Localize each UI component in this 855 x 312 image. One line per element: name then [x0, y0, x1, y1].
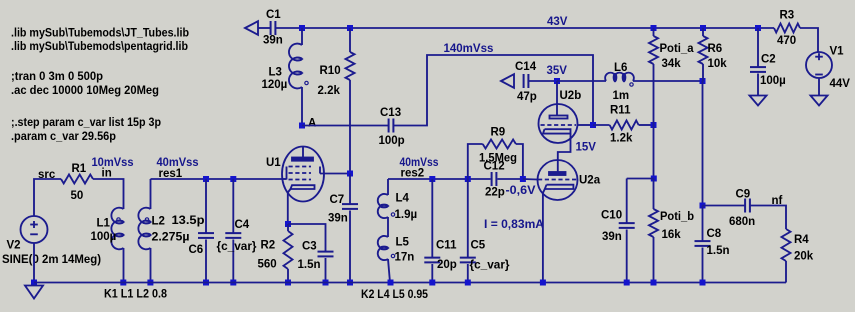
- svg-text:Poti_b: Poti_b: [660, 211, 694, 223]
- svg-text:L6: L6: [614, 62, 627, 74]
- junction R2 bottom rail: [285, 280, 291, 286]
- resistor R2: [284, 231, 293, 269]
- junction res1/C6: [203, 176, 209, 182]
- svg-text:R4: R4: [794, 234, 809, 246]
- svg-text:src: src: [38, 169, 56, 181]
- svg-text:R3: R3: [780, 10, 795, 22]
- resistor Poti_a: [649, 36, 658, 64]
- wire C11 bottom lead: [431, 264, 433, 283]
- junction 35V node: [554, 78, 560, 84]
- resistor R11: [610, 121, 639, 130]
- wire R9 left riser: [468, 144, 483, 179]
- svg-text:;.step param c_var list 15p 3p: ;.step param c_var list 15p 3p: [11, 117, 161, 129]
- svg-text:V1: V1: [830, 46, 845, 58]
- wire 43V rail: [258, 27, 270, 29]
- wire Poti_a top lead: [653, 28, 655, 36]
- svg-text:R10: R10: [320, 65, 341, 77]
- svg-text:C9: C9: [736, 189, 751, 201]
- junction C8 bottom rail: [700, 280, 706, 286]
- wire C4 top lead: [232, 179, 234, 233]
- ground at V2: [25, 286, 43, 299]
- wire R9 right riser: [516, 144, 523, 179]
- svg-text:43V: 43V: [547, 16, 568, 28]
- resistor R10: [346, 52, 355, 80]
- svg-text:47p: 47p: [517, 91, 537, 103]
- svg-text:470: 470: [777, 35, 796, 47]
- svg-text:C12: C12: [484, 161, 505, 173]
- wire C3 bottom lead: [325, 258, 327, 283]
- junction Poti_b bottom rail: [651, 280, 657, 286]
- svg-text:15V: 15V: [576, 142, 597, 154]
- wire C2 top lead: [757, 28, 759, 67]
- svg-text:560: 560: [258, 259, 277, 271]
- wire L3 top lead: [301, 28, 303, 45]
- svg-text:16k: 16k: [662, 229, 682, 241]
- wire node A to C13: [302, 125, 388, 127]
- wire L6 right lead: [633, 80, 703, 82]
- wire Poti_b top lead: [653, 179, 655, 210]
- wire R11 left lead: [593, 124, 610, 126]
- svg-text:Poti_a: Poti_a: [660, 43, 695, 55]
- resistor Poti_b: [649, 209, 658, 237]
- svg-text:L1: L1: [97, 218, 111, 230]
- svg-text:.param c_var 29.56p: .param c_var 29.56p: [11, 131, 116, 143]
- inductor L6: [605, 73, 634, 87]
- svg-text:res1: res1: [159, 168, 183, 180]
- svg-text:100µ: 100µ: [760, 75, 786, 87]
- wire R4 bottom lead: [785, 261, 787, 283]
- svg-text:L3: L3: [269, 67, 282, 79]
- capacitor C7: [342, 204, 358, 209]
- svg-text:I = 0,83mA: I = 0,83mA: [484, 219, 544, 231]
- svg-text:10k: 10k: [708, 58, 728, 70]
- wire C8 top lead: [702, 206, 704, 242]
- wire R2 top lead: [287, 224, 289, 231]
- junction L6 / R6 column: [700, 78, 706, 84]
- wire U2a cathode lead to rail: [542, 193, 544, 283]
- svg-text:-0,6V: -0,6V: [506, 185, 536, 197]
- wire 43V rail main run: [302, 27, 774, 29]
- svg-text:2.275µ: 2.275µ: [152, 232, 190, 244]
- junction C5 bottom rail: [465, 280, 471, 286]
- svg-text:C14: C14: [515, 61, 537, 73]
- svg-text:680n: 680n: [729, 216, 755, 228]
- junction C4 bottom rail: [230, 280, 236, 286]
- junction res1/C4: [230, 176, 236, 182]
- svg-text:{c_var}: {c_var}: [217, 241, 258, 253]
- wire C12 to U2a grid: [523, 178, 538, 181]
- svg-text:39n: 39n: [602, 231, 622, 243]
- svg-text:R11: R11: [610, 105, 631, 117]
- wire R6 column down to nf row: [702, 81, 704, 206]
- svg-text:20k: 20k: [794, 251, 814, 263]
- junction R11 / Poti_a column: [651, 122, 657, 128]
- svg-text:in: in: [102, 168, 112, 180]
- svg-text:C7: C7: [330, 194, 345, 206]
- junction C12/R9/U2a grid: [520, 176, 526, 182]
- resistor R9: [483, 140, 516, 149]
- junction node A: [299, 123, 305, 129]
- resistor R4: [782, 229, 791, 261]
- svg-text:V2: V2: [7, 240, 21, 252]
- capacitor C9: [745, 199, 750, 213]
- wire L4 top lead: [387, 179, 389, 195]
- junction R10 top on rail: [347, 25, 353, 31]
- wire Poti_a bottom lead: [653, 64, 655, 125]
- svg-text:U1: U1: [266, 157, 281, 169]
- svg-text:L5: L5: [396, 237, 410, 249]
- junction Poti_a top on rail: [651, 25, 657, 31]
- wire C6 top lead: [205, 179, 207, 233]
- wire L1 bottom lead: [123, 248, 125, 283]
- resistor R6: [699, 36, 708, 64]
- svg-text:100p: 100p: [379, 135, 405, 147]
- resistor R3: [774, 24, 800, 33]
- svg-text:50: 50: [71, 190, 84, 202]
- svg-text:.lib mySub\Tubemods\pentagrid.: .lib mySub\Tubemods\pentagrid.lib: [11, 41, 188, 53]
- wire C6 bottom lead: [205, 240, 207, 283]
- ground at V1: [811, 96, 828, 106]
- wire C10 bottom lead: [626, 230, 628, 283]
- wire 35V to L6: [557, 80, 606, 82]
- wire C8 bottom lead: [702, 248, 704, 283]
- svg-text:35V: 35V: [547, 65, 568, 77]
- capacitor C2: [750, 67, 766, 72]
- junction C2 top on rail: [755, 25, 761, 31]
- svg-text:;tran 0 3m 0 500p: ;tran 0 3m 0 500p: [11, 71, 103, 83]
- wire C3 branch: [288, 224, 326, 252]
- junction U2a cathode / rail: [540, 280, 546, 286]
- wire res2 row left of C12: [388, 178, 491, 180]
- svg-text:C11: C11: [436, 240, 457, 252]
- svg-text:C3: C3: [302, 241, 317, 253]
- svg-text:C6: C6: [189, 244, 204, 256]
- wire V1 bottom lead: [818, 78, 820, 96]
- junction C1/L3/rail: [299, 25, 305, 31]
- svg-text:L4: L4: [396, 193, 410, 205]
- inductor L1: [111, 208, 123, 250]
- voltage source V2: [21, 216, 48, 243]
- wire res2 row right of C12: [498, 178, 524, 180]
- svg-text:1.2k: 1.2k: [610, 133, 633, 145]
- wire L3 bottom lead to node A: [301, 87, 303, 126]
- junction C6 bottom rail: [203, 280, 209, 286]
- triode U2b: [539, 81, 578, 172]
- antenna arrow at C1: [245, 21, 258, 35]
- svg-text:39n: 39n: [263, 35, 283, 47]
- wire R2 bottom lead: [287, 269, 289, 283]
- wire R10 bottom lead crossing node A row: [349, 80, 351, 174]
- wire R3 right lead and V1 top lead: [800, 28, 818, 52]
- svg-text:R6: R6: [708, 43, 723, 55]
- junction C11 bottom rail: [429, 280, 435, 286]
- wire R10 top lead: [349, 28, 351, 52]
- svg-text:1.9µ: 1.9µ: [395, 209, 418, 221]
- wire C10 top lead: [626, 179, 628, 224]
- svg-text:C5: C5: [471, 240, 486, 252]
- capacitor C1: [271, 21, 276, 35]
- junction R6 top on rail: [700, 25, 706, 31]
- capacitor C12: [492, 172, 497, 186]
- svg-text:U2a: U2a: [579, 175, 601, 187]
- pentagrid tube U1: [282, 147, 324, 202]
- wire U1 grid2 pin to R10 column: [320, 173, 350, 175]
- svg-text:44V: 44V: [830, 78, 851, 90]
- svg-text:2.2k: 2.2k: [318, 85, 341, 97]
- wire L4-L5 middle lead: [387, 217, 389, 237]
- svg-text:nf: nf: [772, 195, 783, 207]
- svg-text:1m: 1m: [613, 90, 630, 102]
- wire Poti_a column mid: [653, 125, 655, 179]
- svg-text:140mVss: 140mVss: [444, 43, 494, 55]
- wire C4 bottom lead: [232, 240, 234, 283]
- svg-text:C1: C1: [266, 9, 281, 21]
- wire R6 bottom lead: [702, 64, 704, 81]
- wire C9 to R4 top: [750, 206, 786, 230]
- capacitor C6: [198, 233, 214, 238]
- wire res1 row: [151, 178, 284, 180]
- svg-text:1.5n: 1.5n: [707, 245, 730, 257]
- wire V2 bottom lead: [33, 243, 35, 283]
- wire L2 top lead: [150, 179, 152, 209]
- wire L5 bottom lead: [388, 259, 390, 283]
- svg-text:10mVss: 10mVss: [92, 157, 134, 169]
- capacitor C8: [695, 241, 711, 246]
- wire C13 to 140mVss corner: [394, 55, 593, 126]
- junction res2/C11: [429, 176, 435, 182]
- capacitor C10: [619, 223, 635, 228]
- svg-text:SINE(0 2m 14Meg): SINE(0 2m 14Meg): [2, 254, 101, 266]
- junction C3 bottom rail: [323, 280, 329, 286]
- capacitor C4: [225, 233, 241, 238]
- junction C10 bottom rail: [624, 280, 630, 286]
- wire C7 bottom lead: [349, 211, 351, 283]
- svg-text:R1: R1: [72, 163, 87, 175]
- wire 43V rail C1 to L3 top: [276, 27, 302, 29]
- svg-text:C8: C8: [707, 228, 722, 240]
- wire C5 top lead: [467, 179, 469, 258]
- inductor L2: [138, 208, 150, 250]
- wire C5 bottom lead: [467, 264, 469, 283]
- svg-text:100µ: 100µ: [91, 231, 117, 243]
- resistor R1: [61, 175, 93, 184]
- wire U1 grid1 pin: [283, 178, 287, 180]
- wire Poti_b bottom lead: [653, 237, 655, 283]
- junction L1 bottom rail: [120, 280, 126, 286]
- junction L5 bottom rail: [388, 280, 394, 286]
- junction U1 g2 / R10 / C7: [347, 171, 353, 177]
- svg-text:39n: 39n: [328, 213, 348, 225]
- svg-text:K2 L4 L5 0.95: K2 L4 L5 0.95: [361, 289, 429, 301]
- wire U2a-C10 row: [627, 178, 654, 180]
- wire R11 right lead: [639, 124, 654, 126]
- wire C7 top lead: [349, 174, 351, 205]
- svg-text:.ac dec 10000 10Meg 20Meg: .ac dec 10000 10Meg 20Meg: [11, 85, 159, 97]
- wire C14 to 35V node: [529, 80, 557, 82]
- wire R6 top lead: [702, 28, 704, 36]
- capacitor C5: [460, 258, 476, 263]
- wire nf row left: [703, 205, 746, 207]
- wire R1 to L1 (node in): [93, 179, 124, 209]
- capacitor C14: [524, 74, 529, 88]
- wire U2b grid pin: [578, 124, 594, 126]
- svg-text:C13: C13: [380, 107, 401, 119]
- junction res2/C5/R9: [465, 176, 471, 182]
- junction U2b grid / R11 / 140mVss: [590, 122, 596, 128]
- svg-text:A: A: [308, 118, 316, 130]
- wire C11 top lead: [431, 179, 433, 258]
- svg-text:{c_var}: {c_var}: [470, 260, 511, 272]
- junction C7 bottom rail: [347, 280, 353, 286]
- junction nf row / C8 column: [700, 203, 706, 209]
- svg-text:C10: C10: [601, 210, 622, 222]
- svg-text:.lib mySub\Tubemods\JT_Tubes.l: .lib mySub\Tubemods\JT_Tubes.lib: [11, 28, 189, 40]
- svg-text:res2: res2: [401, 168, 425, 180]
- junction U1 cathode / R2 / C3: [285, 221, 291, 227]
- ground at C2: [750, 96, 767, 106]
- svg-text:K1 L1 L2 0.8: K1 L1 L2 0.8: [104, 289, 168, 301]
- capacitor C11: [424, 258, 440, 263]
- capacitor C3: [318, 252, 334, 257]
- svg-text:20p: 20p: [437, 259, 457, 271]
- svg-text:R2: R2: [261, 240, 276, 252]
- wire L2 bottom lead: [150, 248, 152, 283]
- inductor L4: [378, 194, 395, 218]
- arrow at C14: [501, 74, 514, 88]
- wire ground rail: [34, 282, 786, 284]
- svg-text:13.5p: 13.5p: [172, 215, 205, 227]
- svg-text:U2b: U2b: [560, 90, 582, 102]
- svg-text:C2: C2: [761, 54, 776, 66]
- inductor L3: [289, 44, 308, 89]
- voltage source V1: [806, 52, 832, 78]
- junction L2 bottom rail: [147, 280, 153, 286]
- svg-text:C4: C4: [235, 219, 250, 231]
- triode U2a: [538, 160, 578, 200]
- svg-text:L2: L2: [152, 216, 165, 228]
- svg-text:120µ: 120µ: [262, 79, 288, 91]
- svg-text:R9: R9: [491, 127, 506, 139]
- inductor L5: [378, 236, 395, 260]
- wire C2 bottom lead: [757, 74, 759, 96]
- svg-text:22p: 22p: [485, 187, 505, 199]
- svg-text:17n: 17n: [395, 252, 415, 264]
- wire U1 cathode lead: [287, 193, 289, 225]
- junction Poti column / C10 row: [651, 176, 657, 182]
- wire V2 top lead to src: [34, 179, 61, 216]
- svg-text:1.5n: 1.5n: [298, 259, 321, 271]
- capacitor C13: [389, 119, 394, 133]
- svg-text:34k: 34k: [662, 58, 682, 70]
- junction V2 / ground rail: [31, 280, 37, 286]
